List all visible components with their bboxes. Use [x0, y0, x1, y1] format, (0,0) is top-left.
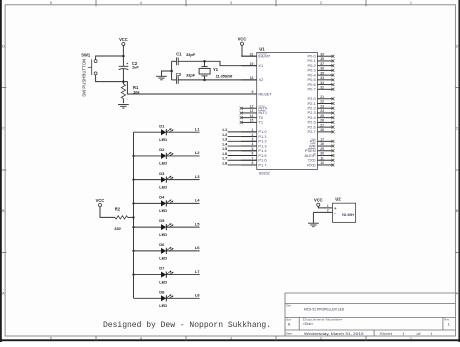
pin 10 RXD (U1 right)	[307, 161, 334, 167]
svg-text:32: 32	[320, 86, 324, 90]
svg-text:9: 9	[252, 90, 254, 94]
wire LED D1 to net L1	[166, 127, 200, 133]
pin 33 P0.6 (U1 right)	[307, 81, 334, 87]
node bus/D2 junction	[132, 155, 134, 157]
svg-text:1: 1	[410, 337, 412, 341]
svg-text:X2: X2	[258, 77, 264, 82]
crystal Y1 11.0592M	[199, 61, 233, 80]
pin 22 P2.1 (U1 right)	[307, 100, 334, 106]
wire SW1 pin 2 to node RST	[96, 75, 124, 82]
pin 27 P2.6 (U1 right)	[307, 123, 334, 129]
svg-text:21: 21	[320, 95, 324, 99]
wire bus to LED D2	[134, 155, 162, 157]
svg-text:26: 26	[320, 119, 324, 123]
title block	[285, 293, 456, 336]
pin 18 X2 (U1 left)	[241, 76, 264, 82]
pin 34 P0.5 (U1 right)	[307, 76, 334, 82]
svg-text:1: 1	[448, 322, 450, 326]
power VCC (reset circuit)	[119, 37, 128, 46]
svg-text:L8: L8	[195, 293, 200, 298]
pin 32 P0.7 (U1 right)	[307, 86, 334, 92]
svg-text:L8: L8	[223, 160, 228, 165]
resistor R1 10k	[121, 82, 140, 104]
svg-text:LED: LED	[159, 208, 167, 213]
pin 30 ALE/P (U1 right)	[304, 152, 334, 158]
svg-text:A: A	[288, 321, 291, 326]
svg-text:R2: R2	[115, 206, 121, 211]
svg-text:L1: L1	[195, 127, 200, 132]
ground (U2)	[308, 223, 319, 227]
svg-text:34: 34	[320, 76, 324, 80]
pin 36 P0.3 (U1 right)	[307, 67, 334, 73]
svg-text:33pF: 33pF	[186, 73, 196, 78]
svg-text:25: 25	[320, 114, 324, 118]
svg-text:L5: L5	[195, 221, 200, 226]
wire LED D6 to net L6	[166, 245, 200, 251]
svg-text:C3: C3	[176, 72, 182, 77]
pin 35 P0.4 (U1 right)	[307, 71, 334, 77]
node bus/D7 junction	[132, 273, 134, 275]
svg-text:U1: U1	[259, 47, 265, 52]
pin 6 P1.5 (U1 left)	[241, 152, 267, 158]
svg-text:24: 24	[320, 109, 324, 113]
wire C1 to U1 X1 pin 19	[178, 61, 257, 65]
wire node RST-TOP to SW1 pin 1	[96, 56, 124, 60]
svg-text:29: 29	[320, 147, 324, 151]
pin 17 RD (U1 right)	[310, 138, 334, 144]
node bus/D4 junction	[132, 202, 134, 204]
pin 4 P1.3 (U1 left)	[241, 142, 267, 148]
svg-text:MCS-51 PROPELLER LED: MCS-51 PROPELLER LED	[304, 306, 344, 311]
svg-text:L4: L4	[195, 198, 200, 203]
svg-text:EA/VP: EA/VP	[258, 54, 270, 59]
svg-text:P1.7: P1.7	[258, 162, 267, 167]
svg-text:VCC: VCC	[119, 37, 128, 42]
svg-text:11.0592M: 11.0592M	[216, 73, 233, 78]
svg-text:22: 22	[320, 100, 324, 104]
svg-text:33pF: 33pF	[186, 52, 196, 57]
svg-text:35: 35	[320, 71, 324, 75]
svg-text:SW PUSHBUTTON: SW PUSHBUTTON	[82, 59, 87, 97]
svg-text:3: 3	[230, 337, 232, 341]
wire net L2 to U1 P1.1 pin 2	[223, 132, 257, 137]
capacitor C2 1uF	[119, 56, 140, 82]
pin 28 P2.7 (U1 right)	[307, 128, 334, 134]
node RST-TOP junction	[122, 55, 125, 58]
node RST junction	[122, 80, 125, 83]
svg-text:RXD: RXD	[307, 162, 316, 167]
wire net L1 to U1 P1.0 pin 1	[223, 127, 257, 132]
svg-text:5: 5	[50, 337, 52, 341]
svg-text:D8: D8	[159, 289, 165, 294]
svg-text:15: 15	[250, 119, 254, 123]
svg-text:Rev: Rev	[444, 318, 449, 322]
svg-text:23: 23	[320, 104, 324, 108]
svg-text:12: 12	[250, 104, 254, 108]
LED D6	[159, 242, 173, 261]
svg-text:33: 33	[320, 81, 324, 85]
pin 2 - (U2)	[313, 209, 336, 217]
LED D5	[159, 218, 173, 237]
svg-text:LED: LED	[159, 232, 167, 237]
wire net L8 to U1 P1.7 pin 8	[223, 160, 257, 165]
svg-text:14: 14	[250, 114, 254, 118]
pin 37 P0.2 (U1 right)	[307, 62, 334, 68]
svg-text:13: 13	[250, 109, 254, 113]
svg-text:31: 31	[250, 52, 254, 56]
svg-text:L7: L7	[195, 269, 200, 274]
node bus/D6 junction	[132, 250, 134, 252]
svg-text:36: 36	[320, 67, 324, 71]
wire LED D4 to net L4	[166, 198, 200, 204]
svg-text:of: of	[416, 332, 420, 336]
power VCC (battery)	[314, 198, 323, 207]
capacitor C1 33pF	[172, 51, 196, 65]
power VCC (EA/VP)	[238, 37, 247, 46]
switch SW1 (SW PUSHBUTTON)	[81, 52, 97, 97]
svg-text:5: 5	[50, 1, 52, 5]
wire node RST to U1 RESET pin 9	[123, 82, 256, 94]
wire net L6 to U1 P1.5 pin 6	[223, 151, 257, 156]
LED D2	[159, 147, 173, 166]
svg-text:4: 4	[140, 337, 142, 341]
node bus/D5 junction	[132, 226, 134, 228]
wire LED anode bus	[133, 132, 135, 298]
svg-text:Date:: Date:	[286, 332, 293, 336]
svg-text:<Doc>: <Doc>	[303, 322, 314, 326]
svg-text:D7: D7	[159, 266, 165, 271]
svg-text:89s52: 89s52	[259, 170, 271, 175]
pin 25 P2.4 (U1 right)	[307, 114, 334, 120]
svg-text:LED: LED	[159, 256, 167, 261]
wire net L5 to U1 P1.4 pin 5	[223, 146, 257, 151]
svg-text:11: 11	[320, 156, 324, 160]
svg-text:L3: L3	[195, 174, 200, 179]
svg-text:X1: X1	[258, 63, 264, 68]
svg-text:D5: D5	[159, 218, 165, 223]
pin 11 TXD (U1 right)	[308, 156, 335, 162]
svg-text:U2: U2	[335, 197, 341, 202]
pin 16 WR (U1 right)	[309, 142, 334, 148]
svg-text:2: 2	[320, 1, 322, 5]
svg-text:18: 18	[250, 76, 254, 80]
svg-text:1: 1	[431, 332, 433, 336]
pin 9 RESET (U1 left)	[241, 90, 272, 96]
node xtal-gnd junction	[170, 70, 173, 73]
node XTAL1 junction	[203, 60, 206, 63]
wire bus to LED D3	[134, 179, 162, 181]
svg-text:19: 19	[250, 62, 254, 66]
pin 12 INT0 (U1 left)	[240, 104, 268, 110]
svg-text:VCC: VCC	[96, 198, 105, 203]
svg-text:D3: D3	[159, 171, 165, 176]
wire net L7 to U1 P1.6 pin 7	[223, 156, 257, 161]
svg-text:VCC: VCC	[314, 198, 323, 203]
wire LED D2 to net L2	[166, 150, 200, 156]
wire LED D5 to net L5	[166, 221, 200, 227]
wire net L3 to U1 P1.2 pin 3	[223, 137, 257, 142]
wire xtal left bus	[171, 61, 173, 80]
LED D7	[159, 266, 173, 285]
svg-text:LED: LED	[159, 184, 167, 189]
svg-text:1uF: 1uF	[132, 65, 140, 70]
capacitor C3 33pF	[172, 72, 196, 84]
svg-text:4: 4	[140, 1, 142, 5]
wire U2 pin 2 to ground	[312, 212, 314, 223]
svg-text:Y1: Y1	[213, 67, 219, 72]
svg-text:SW1: SW1	[81, 52, 91, 57]
svg-text:L6: L6	[195, 245, 200, 250]
LED D8	[159, 289, 173, 308]
svg-text:Title: Title	[286, 303, 291, 307]
wire bus to LED D5	[134, 226, 162, 228]
wire VCC to U2 pin 1 (+)	[318, 206, 332, 208]
ground (R1)	[118, 105, 129, 109]
wire LED D7 to net L7	[166, 269, 200, 275]
svg-text:D4: D4	[159, 194, 165, 199]
svg-text:1: 1	[327, 204, 329, 208]
wire bus to LED D8	[134, 297, 162, 299]
pin 13 INT1 (U1 left)	[240, 109, 268, 115]
pin 21 P2.0 (U1 right)	[307, 95, 334, 101]
LED D3	[159, 171, 173, 190]
svg-text:VCC: VCC	[238, 37, 247, 42]
svg-text:D1: D1	[159, 123, 165, 128]
LED D1	[159, 123, 173, 142]
svg-text:Designed by Dew - Nopporn Sukk: Designed by Dew - Nopporn Sukkhang.	[103, 321, 271, 330]
pin 7 P1.6 (U1 left)	[241, 156, 267, 162]
pin 26 P2.5 (U1 right)	[307, 119, 334, 125]
svg-text:P2.7: P2.7	[307, 129, 316, 134]
svg-text:2: 2	[320, 337, 322, 341]
svg-text:RESET: RESET	[258, 91, 272, 96]
svg-text:Wednesday, March 31, 2010: Wednesday, March 31, 2010	[304, 332, 364, 336]
svg-text:Sheet: Sheet	[380, 332, 393, 336]
svg-text:39: 39	[320, 52, 324, 56]
svg-text:C1: C1	[176, 51, 182, 56]
svg-text:LED: LED	[159, 279, 167, 284]
pin 1 + (U2)	[327, 204, 337, 211]
svg-text:D6: D6	[159, 242, 165, 247]
pin 14 T0 (U1 left)	[240, 114, 264, 120]
svg-text:28: 28	[320, 128, 324, 132]
svg-text:10: 10	[320, 161, 324, 165]
wire net L4 to U1 P1.3 pin 4	[223, 141, 257, 146]
svg-text:330: 330	[114, 226, 121, 231]
wire VCC to R2	[100, 207, 115, 218]
pin 24 P2.3 (U1 right)	[307, 109, 334, 115]
pin 29 PSEN (U1 right)	[305, 147, 335, 153]
pin 23 P2.2 (U1 right)	[307, 104, 334, 110]
svg-text:2: 2	[327, 209, 329, 213]
svg-text:P0.7: P0.7	[307, 87, 316, 92]
svg-text:T1: T1	[258, 120, 263, 125]
node bus/D3 junction	[132, 179, 134, 181]
wire VCC to U1 EA/VP pin 31	[242, 45, 257, 56]
svg-text:3: 3	[230, 1, 232, 5]
svg-text:Document Number: Document Number	[303, 318, 343, 322]
svg-text:LED: LED	[159, 161, 167, 166]
pin 15 T1 (U1 left)	[240, 119, 264, 125]
ground (crystal)	[156, 76, 167, 80]
wire bus to LED D7	[134, 274, 162, 276]
pin 31 EA/VP (U1 left)	[241, 52, 270, 58]
svg-text:LED: LED	[159, 137, 167, 142]
svg-text:NI-MH: NI-MH	[342, 212, 354, 217]
svg-text:1: 1	[402, 332, 404, 336]
svg-text:LED: LED	[159, 303, 167, 308]
battery U2 NI-MH	[333, 197, 356, 223]
pin 1 P1.0 (U1 left)	[241, 128, 267, 134]
resistor R2 330	[114, 206, 133, 231]
pin 19 X1 (U1 left)	[241, 62, 264, 68]
pin 2 P1.1 (U1 left)	[241, 133, 267, 139]
svg-text:D2: D2	[159, 147, 165, 152]
pin 5 P1.4 (U1 left)	[241, 147, 267, 153]
svg-text:27: 27	[320, 123, 324, 127]
wire bus to LED D1	[134, 131, 162, 133]
LED D4	[159, 194, 173, 213]
node XTAL2 junction	[203, 79, 206, 82]
svg-text:L2: L2	[195, 150, 200, 155]
svg-text:16: 16	[320, 142, 324, 146]
node R2/LED-bus junction	[132, 216, 134, 218]
wire LED D3 to net L3	[166, 174, 200, 180]
svg-text:38: 38	[320, 57, 324, 61]
wire VCC to node RST-TOP	[122, 46, 124, 56]
svg-text:37: 37	[320, 62, 324, 66]
pin 38 P0.1 (U1 right)	[307, 57, 334, 63]
power VCC (LED supply)	[96, 198, 105, 207]
svg-text:1: 1	[410, 1, 412, 5]
svg-text:17: 17	[320, 138, 324, 142]
pin 39 P0.0 (U1 right)	[307, 52, 334, 58]
wire bus to LED D4	[134, 202, 162, 204]
wire C3 to U1 X2 pin 18	[178, 79, 257, 81]
wire bus to LED D6	[134, 250, 162, 252]
wire LED D8 to net L8	[166, 293, 200, 299]
microcontroller U1 89S52	[257, 47, 318, 176]
svg-text:30: 30	[320, 152, 324, 156]
pin 8 P1.7 (U1 left)	[241, 161, 267, 167]
pin 3 P1.2 (U1 left)	[241, 138, 267, 144]
wire xtal bus to ground	[162, 71, 172, 76]
